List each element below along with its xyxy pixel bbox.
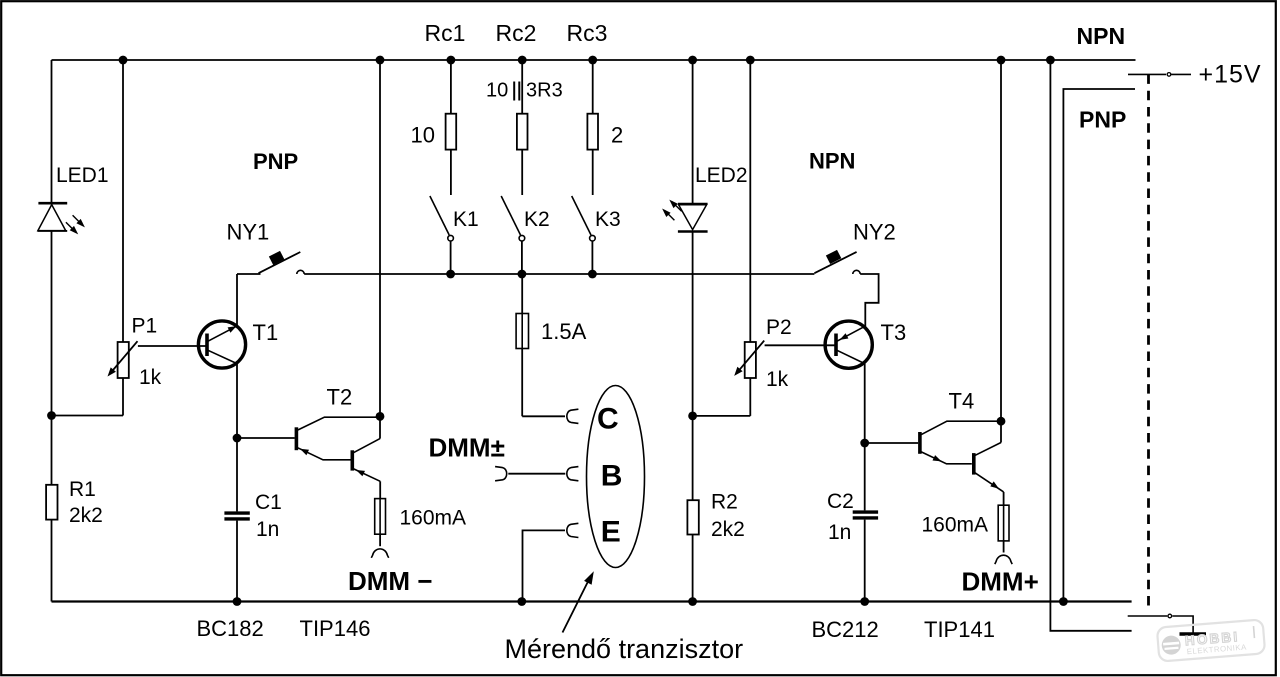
junction T4 collector bbox=[997, 417, 1006, 426]
svg-text:160mA: 160mA bbox=[400, 507, 467, 530]
svg-text:1k: 1k bbox=[139, 366, 162, 389]
capacitor C1 bbox=[224, 513, 249, 519]
svg-text:T1: T1 bbox=[253, 320, 279, 345]
transistor T2 darlington bbox=[296, 60, 380, 499]
svg-text:B: B bbox=[601, 460, 623, 493]
fuse 160mA right bbox=[998, 505, 1009, 541]
svg-text:C1: C1 bbox=[255, 491, 282, 514]
svg-text:BC212: BC212 bbox=[812, 617, 879, 642]
svg-text:+15V: +15V bbox=[1199, 61, 1262, 89]
svg-text:R1: R1 bbox=[69, 478, 96, 501]
socket E bbox=[567, 523, 579, 537]
socket B right bbox=[567, 467, 579, 481]
svg-text:K2: K2 bbox=[524, 208, 550, 231]
svg-text:T2: T2 bbox=[327, 385, 353, 410]
svg-text:P1: P1 bbox=[132, 315, 158, 338]
junction K1 rail bbox=[446, 270, 455, 279]
svg-text:C2: C2 bbox=[827, 490, 854, 513]
fuse 160mA left bbox=[375, 499, 386, 535]
resistor R2 bbox=[687, 500, 698, 534]
potentiometer P2 bbox=[737, 60, 834, 416]
junction node A T1-T2 base bbox=[233, 434, 242, 443]
junction top rail Rc3 bbox=[588, 56, 597, 65]
wire right column A bbox=[1050, 60, 1131, 631]
svg-text:1k: 1k bbox=[766, 368, 789, 391]
fuse 1.5A bbox=[516, 274, 565, 416]
svg-text:TIP141: TIP141 bbox=[924, 617, 995, 642]
svg-text:DMM+: DMM+ bbox=[962, 567, 1039, 597]
wire left branch mid bbox=[51, 231, 53, 485]
wire left branch lower bbox=[51, 520, 53, 602]
wire left branch upper bbox=[51, 60, 53, 203]
svg-text:1n: 1n bbox=[828, 521, 851, 544]
svg-text:2: 2 bbox=[611, 123, 623, 148]
wire top rail bbox=[52, 59, 1136, 61]
svg-text:160mA: 160mA bbox=[922, 514, 989, 537]
svg-text:R2: R2 bbox=[711, 491, 738, 514]
pushbutton NY1 bbox=[237, 252, 814, 326]
wire C2 stubs bbox=[865, 443, 918, 602]
socket C bbox=[567, 409, 579, 423]
junction bottom rail C1 bbox=[233, 597, 242, 606]
transistor T1 bbox=[198, 321, 245, 438]
junction top rail P1 branch bbox=[119, 56, 128, 65]
junction top rail right column bbox=[1046, 56, 1055, 65]
junction node R2 top bbox=[688, 412, 697, 421]
junction top rail T4 collector branch bbox=[997, 56, 1006, 65]
switch K3 bbox=[572, 196, 591, 235]
junction node B T3-T4 base bbox=[860, 439, 869, 448]
svg-text:T4: T4 bbox=[949, 389, 975, 414]
wire E row bbox=[523, 530, 566, 601]
svg-text:1.5A: 1.5A bbox=[541, 319, 587, 344]
junction top rail T2 collector branch bbox=[376, 56, 385, 65]
ground symbol bbox=[1180, 632, 1207, 635]
wire C1 stubs bbox=[237, 438, 295, 602]
svg-text:C: C bbox=[597, 403, 619, 436]
logo watermark bbox=[1157, 619, 1265, 661]
svg-text:1n: 1n bbox=[256, 518, 279, 541]
LED LED2 bbox=[664, 60, 707, 602]
svg-text:LED2: LED2 bbox=[695, 164, 748, 187]
capacitor C2 bbox=[853, 512, 878, 518]
svg-text:T3: T3 bbox=[881, 320, 907, 345]
resistor Rc2 bbox=[517, 60, 528, 195]
junction top rail Rc1 bbox=[447, 56, 456, 65]
transistor T4 darlington bbox=[920, 60, 1004, 505]
svg-text:Mérendő tranzisztor: Mérendő tranzisztor bbox=[505, 634, 744, 664]
junction top rail Rc2 bbox=[518, 56, 527, 65]
terminal ground row bbox=[1128, 615, 1168, 617]
svg-text:TIP146: TIP146 bbox=[300, 616, 371, 641]
resistor Rc3 bbox=[587, 60, 598, 195]
svg-text:NY2: NY2 bbox=[853, 220, 896, 245]
junction T2 collector bbox=[376, 412, 385, 421]
svg-text:P2: P2 bbox=[766, 316, 792, 339]
svg-text:Rc2: Rc2 bbox=[496, 20, 537, 46]
wire pot link right bbox=[693, 415, 751, 417]
plug DMM+- bbox=[495, 467, 507, 481]
svg-text:PNP: PNP bbox=[253, 149, 298, 174]
svg-text:K1: K1 bbox=[453, 208, 479, 231]
svg-text:Rc3: Rc3 bbox=[567, 20, 608, 46]
svg-text:DMM±: DMM± bbox=[429, 433, 505, 463]
switch K1 bbox=[430, 196, 449, 235]
svg-text:E: E bbox=[601, 516, 621, 549]
junction top rail P2 branch bbox=[746, 56, 755, 65]
resistor Rc1 bbox=[446, 60, 457, 195]
ellipse DUT bbox=[587, 386, 645, 568]
svg-text:DMM −: DMM − bbox=[348, 566, 433, 596]
junction bottom rail R2 bbox=[688, 597, 697, 606]
wire x123 upper bbox=[122, 60, 124, 342]
junction bottom rail PNP return bbox=[1059, 597, 1068, 606]
wire B row bbox=[508, 473, 565, 475]
probe DMM- socket bbox=[371, 549, 388, 558]
arrow merendo bbox=[563, 582, 589, 633]
svg-text:3R3: 3R3 bbox=[526, 80, 563, 102]
label par bars bbox=[514, 82, 519, 101]
resistor R1 bbox=[46, 485, 57, 520]
junction K2 rail bbox=[518, 270, 527, 279]
terminal +15V bbox=[1128, 73, 1166, 75]
pushbutton NY2 bbox=[814, 252, 878, 327]
svg-text:PNP: PNP bbox=[1079, 107, 1126, 133]
junction bottom rail C2 bbox=[860, 597, 869, 606]
probe DMM+ socket bbox=[995, 555, 1012, 564]
svg-text:2k2: 2k2 bbox=[711, 518, 745, 541]
wire x123 lower bbox=[122, 378, 124, 416]
junction top rail LED2 branch bbox=[688, 56, 697, 65]
transistor T3 bbox=[825, 321, 872, 443]
svg-text:10: 10 bbox=[486, 80, 508, 102]
switch K2 bbox=[501, 196, 520, 235]
svg-text:NPN: NPN bbox=[809, 149, 855, 174]
svg-text:NY1: NY1 bbox=[227, 220, 270, 245]
wire PNP bracket bbox=[1063, 89, 1135, 602]
junction bottom rail E branch bbox=[517, 597, 526, 606]
wire pot link left bbox=[52, 415, 124, 417]
LED LED1 bbox=[38, 203, 85, 234]
wire bottom rail bbox=[52, 600, 1132, 602]
svg-text:BC182: BC182 bbox=[197, 616, 264, 641]
svg-text:K3: K3 bbox=[595, 208, 621, 231]
junction K3 rail bbox=[588, 270, 597, 279]
svg-text:NPN: NPN bbox=[1077, 23, 1126, 49]
potentiometer P1 bbox=[111, 341, 207, 378]
svg-text:Rc1: Rc1 bbox=[425, 20, 466, 46]
junction node R1 top bbox=[47, 411, 56, 420]
svg-text:2k2: 2k2 bbox=[69, 504, 103, 527]
svg-text:LED1: LED1 bbox=[56, 164, 109, 187]
svg-text:10: 10 bbox=[411, 123, 435, 148]
wire dashed supply bbox=[1147, 74, 1150, 612]
